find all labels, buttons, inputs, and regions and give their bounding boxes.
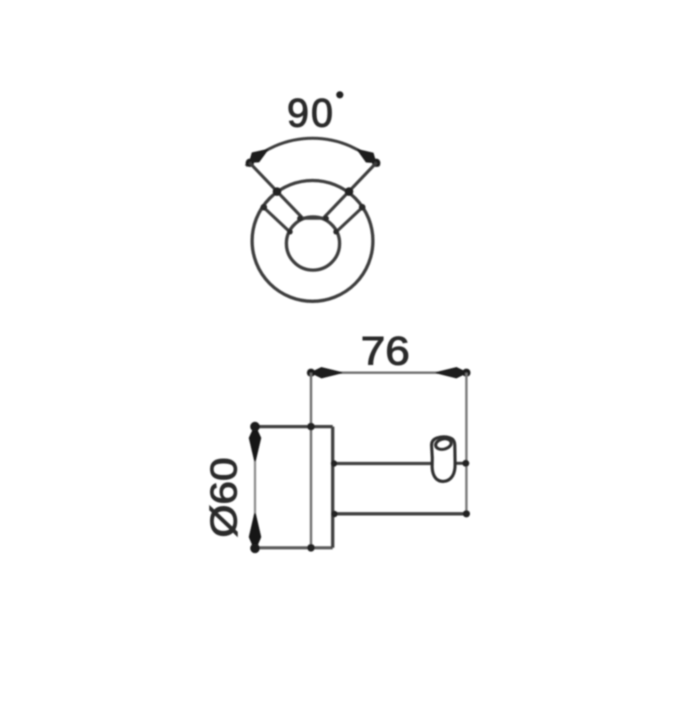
arc arrow left [250,150,268,162]
corner dot plate top-left [250,422,260,432]
junction dot hub top-right [323,216,329,222]
arrow D60 up [250,427,261,461]
left prong outer edge [264,207,290,231]
junction dot right on plate circle [345,187,354,196]
junction dot divider top [307,423,315,431]
left prong inner edge [249,163,302,218]
arc arrow right [358,150,376,163]
dimension line D60 [254,427,256,548]
svg-text:76: 76 [361,330,410,374]
corner dot 76 right [462,369,470,377]
angle dimension arc [246,138,380,166]
svg-text:90: 90 [287,92,335,136]
corner dot plate bottom-left [250,544,260,554]
extension line left / plate divider [310,373,312,548]
junction dot left on plate circle [273,187,282,196]
junction dot hub left [287,229,292,234]
arm top edge [333,462,431,465]
junction dot divider bottom [307,544,315,552]
svg-text:Ø60: Ø60 [203,458,245,538]
right prong outer edge [337,207,363,231]
junction dot hub right [333,229,338,234]
junction dot hub top-left [297,216,303,222]
arrow 76 right [436,368,466,378]
junction dot left outer [261,204,268,211]
junction dot arm bottom at plate [331,511,337,517]
corner dot 76 left [307,369,315,377]
right prong inner edge [324,163,377,218]
degree dot [336,91,343,98]
wall plate circle [252,181,373,302]
arrow 76 left [312,368,342,378]
junction dot peg connector [462,460,469,467]
hub circle [286,217,339,270]
arm bottom edge [333,512,467,515]
plate right edge [331,427,334,548]
arc end blob left [246,159,254,167]
arc end blob right [372,159,380,167]
hook peg top face ellipse [435,437,453,450]
peg connector line [455,462,467,465]
hook peg outline [432,437,456,482]
hub top chord [299,217,327,220]
dimension line 76 [311,372,466,374]
arrow D60 down [250,514,261,550]
junction dot arm bottom right corner [463,510,470,517]
junction dot right outer [359,204,366,211]
plate top edge [254,425,333,428]
extension line right / arm right edge [465,373,467,514]
junction dot arm top at plate [331,460,337,466]
plate bottom edge [254,546,333,549]
